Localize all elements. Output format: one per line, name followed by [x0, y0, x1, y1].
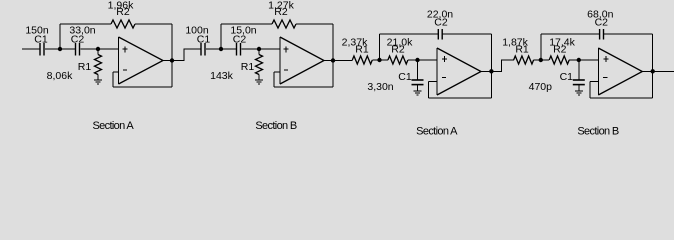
wire C2 to node B [241, 48, 259, 50]
wire feedback right vertical to output node [652, 34, 654, 98]
op-amp U4 [598, 48, 642, 95]
op-amp inverting input label - [442, 76, 446, 78]
wire output [324, 60, 333, 62]
wire node A to C2 [60, 48, 76, 50]
resistor R1 (8,06k) to ground [95, 49, 102, 80]
wire node A to R2 [380, 59, 388, 61]
svg-text:C1: C1 [560, 71, 574, 83]
svg-text:R2: R2 [391, 44, 405, 56]
op-amp noninverting input label + [603, 56, 608, 62]
op-amp inverting input label - [603, 76, 607, 78]
ground [575, 91, 583, 95]
wire feedback tap node A up [220, 24, 222, 49]
wire stage 3 output to stage 4 (step up) [491, 60, 514, 71]
wire R1 to node A [372, 59, 379, 61]
capacitor C1 (470p) to ground [573, 60, 585, 91]
node A (junction R1/R2/C2 feedback) [377, 58, 381, 62]
node B (junction R2/C1/op-amp input) [415, 58, 419, 62]
ground [94, 80, 102, 84]
wire inverting input feedback (unity gain loop) [113, 72, 172, 87]
svg-text:R2: R2 [553, 44, 567, 56]
wire input [22, 48, 40, 50]
ground [255, 80, 263, 84]
capacitor C2 (15,0n) [237, 43, 241, 56]
wire stage 2 output to section A low-pass [333, 60, 352, 62]
resistor R1 (143k) to ground [256, 49, 263, 80]
wire feedback top left segment [541, 33, 600, 35]
op-amp noninverting input label + [442, 56, 447, 62]
wire output [481, 70, 491, 72]
wire node B to op-amp [98, 48, 119, 50]
wire C1 to node A [45, 48, 60, 50]
node A (junction C1/C2/feedback tap) [58, 47, 62, 51]
wire inverting input feedback (unity gain loop) [429, 82, 492, 99]
wire output [163, 60, 172, 62]
capacitor C1 (3,30n) to ground [412, 60, 424, 91]
op-amp U3 [437, 48, 481, 95]
wire feedback top right segment [135, 23, 172, 25]
svg-text:470p: 470p [529, 81, 553, 93]
svg-text:C2: C2 [595, 17, 609, 29]
wire feedback tap node A up [59, 24, 61, 49]
capacitor C1 (150n) [40, 43, 44, 56]
output node [651, 69, 655, 73]
svg-text:C2: C2 [434, 17, 448, 29]
capacitor C2 (68,0n) feedback [600, 29, 604, 40]
svg-text:R1: R1 [515, 44, 529, 56]
wire inverting input feedback (unity gain loop) [274, 72, 333, 87]
wire C2 feedback tap up from node A [540, 34, 542, 60]
wire R2 to node B [408, 59, 418, 61]
wire feedback top left segment [221, 23, 272, 25]
svg-text:C2: C2 [233, 34, 247, 46]
svg-text:Section A: Section A [92, 120, 134, 132]
resistor R2 (1,96k) feedback [111, 20, 135, 28]
resistor R2 (21,0k) [388, 56, 408, 64]
node A (junction R1/R2/C2 feedback) [539, 58, 543, 62]
svg-text:C1: C1 [197, 34, 211, 46]
wire node B to op-amp [259, 48, 280, 50]
svg-text:C1: C1 [34, 34, 48, 46]
output node [489, 69, 493, 73]
wire feedback right vertical to output node [171, 24, 173, 87]
node A (junction C1/C2/feedback tap) [219, 47, 223, 51]
resistor R1 (1,87k) [514, 56, 534, 64]
wire node A to R2 [541, 59, 549, 61]
wire feedback top right segment [296, 23, 333, 25]
capacitor C2 (33,0n) [76, 43, 80, 56]
wire C2 to node B [80, 48, 98, 50]
wire C1 to node A [206, 48, 221, 50]
svg-text:C2: C2 [71, 34, 85, 46]
op-amp U1 [119, 37, 164, 84]
wire feedback top right segment [604, 33, 653, 35]
svg-text:R2: R2 [274, 6, 288, 18]
wire node A to C2 [221, 48, 237, 50]
wire node B to op-amp [418, 59, 438, 61]
capacitor C2 (22,0n) feedback [438, 29, 442, 40]
output node [170, 58, 174, 62]
node B (junction R2/C1/op-amp input) [577, 58, 581, 62]
wire feedback top right segment [442, 33, 491, 35]
output node [331, 58, 335, 62]
svg-text:Section B: Section B [577, 126, 619, 138]
wire output [642, 70, 652, 72]
op-amp inverting input label - [123, 69, 127, 71]
wire R1 to node A [534, 59, 541, 61]
op-amp noninverting input label + [284, 47, 289, 53]
capacitor C1 (100n) [201, 43, 205, 56]
wire final output [653, 70, 674, 72]
resistor R2 (1,27k) feedback [272, 20, 296, 28]
wire feedback right vertical to output node [490, 34, 492, 98]
svg-text:Section B: Section B [255, 120, 297, 132]
node B (junction C2/R1/op-amp input) [257, 47, 261, 51]
svg-text:R1: R1 [355, 44, 369, 56]
svg-text:R2: R2 [116, 6, 130, 18]
wire stage 1 output to stage 2 (step up) [172, 49, 201, 61]
svg-text:143k: 143k [210, 70, 234, 82]
op-amp U2 [280, 37, 324, 84]
wire feedback right vertical to output node [332, 24, 334, 87]
svg-text:R1: R1 [78, 61, 92, 73]
svg-text:C1: C1 [398, 71, 412, 83]
node B (junction C2/R1/op-amp input) [96, 47, 100, 51]
svg-text:3,30n: 3,30n [367, 81, 393, 93]
wire C2 feedback tap up from node A [379, 34, 381, 60]
svg-text:Section A: Section A [416, 126, 458, 138]
wire feedback top left segment [380, 33, 439, 35]
wire inverting input feedback (unity gain loop) [590, 82, 653, 99]
wire node B to op-amp [579, 59, 599, 61]
op-amp inverting input label - [284, 69, 288, 71]
ground [414, 91, 422, 95]
wire R2 to node B [569, 59, 579, 61]
svg-text:8,06k: 8,06k [47, 70, 73, 82]
resistor R1 (2,37k) [352, 56, 372, 64]
svg-text:R1: R1 [241, 61, 255, 73]
resistor R2 (17,4k) [549, 56, 569, 64]
op-amp noninverting input label + [123, 47, 128, 53]
wire feedback top left segment [60, 23, 111, 25]
